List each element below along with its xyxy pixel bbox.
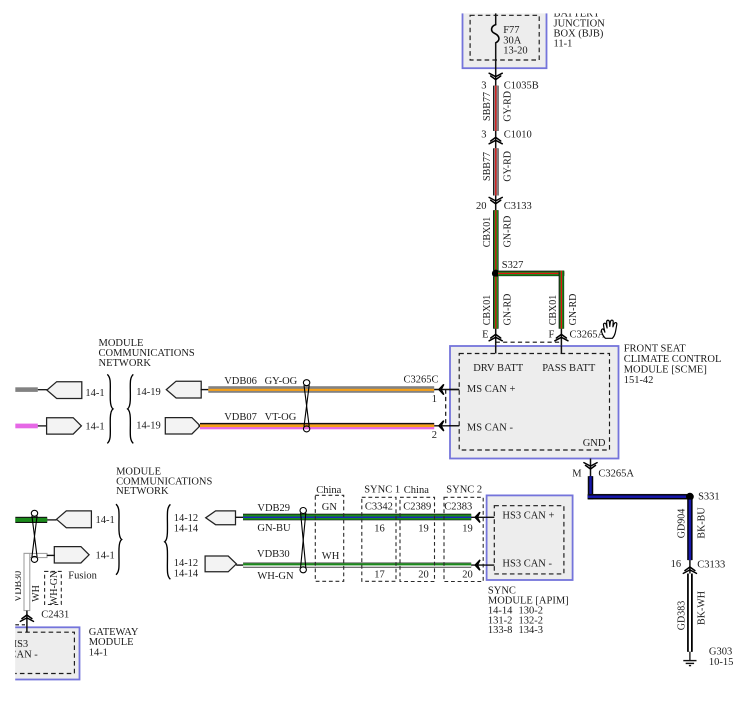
svg-text:GN-RD: GN-RD <box>502 216 513 248</box>
svg-text:CBX01: CBX01 <box>482 295 493 326</box>
svg-text:SYNC 1: SYNC 1 <box>364 484 400 495</box>
svg-text:3: 3 <box>481 129 486 140</box>
svg-text:C3133: C3133 <box>504 201 532 212</box>
connector C3265A pin M symbol <box>586 465 596 469</box>
wire HS3 CAN + inside module <box>486 516 495 518</box>
front seat climate control module SCME box <box>450 346 619 459</box>
wire pin 1 inside module <box>449 389 459 391</box>
svg-text:CLIMATE CONTROL: CLIMATE CONTROL <box>624 354 722 365</box>
svg-text:SYNC 2: SYNC 2 <box>446 484 482 495</box>
pin arrow into APIM HS3 CAN - <box>471 564 494 566</box>
svg-text:VDB07: VDB07 <box>224 412 257 423</box>
svg-text:30A: 30A <box>503 35 522 46</box>
svg-text:14-14: 14-14 <box>174 524 199 535</box>
off-page arrow 14-1 gateway HS3 CAN - <box>54 547 89 563</box>
lead to off-page arrow gateway row1 <box>47 519 56 521</box>
svg-text:M: M <box>572 468 582 479</box>
svg-text:F: F <box>548 330 554 341</box>
harness break brace left-facing top <box>128 374 134 443</box>
svg-text:BK-BU: BK-BU <box>697 507 708 539</box>
svg-text:134-3: 134-3 <box>519 625 544 636</box>
svg-text:17: 17 <box>374 570 385 581</box>
svg-text:BK-WH: BK-WH <box>697 591 708 625</box>
connector C1035B symbol <box>491 76 501 80</box>
harness break brace bottom-right <box>165 504 171 579</box>
lead from arrow to wire VDB29 <box>235 516 243 518</box>
svg-text:16: 16 <box>671 559 682 570</box>
svg-text:GY-RD: GY-RD <box>502 91 513 122</box>
svg-text:WH: WH <box>31 585 42 602</box>
svg-text:China: China <box>404 485 429 496</box>
wire from BJB top to fuse F77 <box>495 9 497 25</box>
hand cursor near C3265A <box>601 320 616 338</box>
svg-text:19: 19 <box>418 524 429 535</box>
svg-text:S327: S327 <box>502 260 524 271</box>
lead to ground symbol <box>689 652 691 661</box>
svg-text:C2431: C2431 <box>41 609 69 620</box>
splice S327 <box>492 270 500 278</box>
svg-text:VDB29: VDB29 <box>257 503 290 514</box>
svg-text:MS CAN +: MS CAN + <box>467 384 516 395</box>
svg-text:14-14: 14-14 <box>174 569 199 580</box>
dashed connector box SYNC 2 <box>444 497 483 581</box>
wire VDB29 GN-BU <box>243 514 471 521</box>
svg-text:13-20: 13-20 <box>503 46 528 57</box>
svg-text:14-12: 14-12 <box>174 513 199 524</box>
wire pin 2 inside module <box>449 425 459 427</box>
svg-text:WH: WH <box>322 551 340 562</box>
svg-text:GN-RD: GN-RD <box>568 294 579 326</box>
svg-text:C2389: C2389 <box>403 502 431 513</box>
svg-text:MS CAN -: MS CAN - <box>467 423 514 434</box>
svg-text:GY-OG: GY-OG <box>265 376 298 387</box>
connector C1010 symbol <box>491 137 501 141</box>
svg-text:14-12: 14-12 <box>174 558 199 569</box>
wire through connector C3133 <box>495 196 497 211</box>
wire into SCME pin F <box>560 329 562 354</box>
off-page arrow 14-1 MS CAN + left <box>47 382 82 399</box>
svg-text:C3265C: C3265C <box>404 374 439 385</box>
off-page arrow 14-1 gateway HS3 CAN + <box>57 511 92 528</box>
svg-text:NETWORK: NETWORK <box>99 358 152 369</box>
harness break brace right-facing top <box>107 374 113 443</box>
BJB inner dashed fuse box <box>470 15 539 60</box>
gateway inner dashed box <box>0 632 74 673</box>
svg-text:151-42: 151-42 <box>624 375 654 386</box>
off-page arrow MS CAN - right <box>165 418 200 434</box>
wire through connector C3133 bottom <box>689 560 691 573</box>
dashed connector line at C2431 <box>15 624 25 626</box>
wire WH vertical to C2431 <box>24 553 30 610</box>
wire into gateway inside module <box>26 626 28 632</box>
svg-text:Fusion: Fusion <box>68 571 97 582</box>
svg-text:20: 20 <box>462 570 473 581</box>
svg-text:14-1: 14-1 <box>96 551 115 562</box>
off-page wire stub GY <box>15 387 38 392</box>
svg-text:C3265A: C3265A <box>598 468 634 479</box>
harness break brace bottom-left <box>116 504 122 575</box>
svg-text:NETWORK: NETWORK <box>116 486 169 497</box>
twisted pair symbol HS3 CAN <box>300 508 306 573</box>
svg-text:GN-RD: GN-RD <box>502 294 513 326</box>
svg-text:CBX01: CBX01 <box>548 295 559 326</box>
svg-text:WH-GN: WH-GN <box>49 571 60 605</box>
svg-text:C3342: C3342 <box>365 502 393 513</box>
svg-text:VT-OG: VT-OG <box>265 412 297 423</box>
wire pin F inside module <box>560 345 562 353</box>
svg-text:WH-GN: WH-GN <box>257 571 294 582</box>
twisted pair symbol MS CAN <box>303 380 309 432</box>
wire from SCME GND to connector C3265A pin M <box>590 459 592 477</box>
svg-text:14-1: 14-1 <box>85 388 104 399</box>
wire VDB07 VT-OG <box>200 423 434 429</box>
svg-text:14-1: 14-1 <box>89 647 108 658</box>
wire HS3 CAN - inside module <box>486 564 495 566</box>
svg-text:E: E <box>482 330 488 341</box>
wire into SCME pin E <box>495 329 497 354</box>
wire GN stub to off-page arrow <box>15 517 47 523</box>
pin arrow into APIM HS3 CAN + <box>471 516 494 518</box>
svg-text:China: China <box>316 485 341 496</box>
svg-text:C3265A: C3265A <box>570 330 606 341</box>
svg-text:GN: GN <box>322 502 338 513</box>
wire GD904 BK-BU horizontal to S331 <box>588 494 693 500</box>
svg-text:DRV BATT: DRV BATT <box>473 363 524 374</box>
wire GD904 BK-BU down from S331 <box>687 500 693 560</box>
svg-text:C1035B: C1035B <box>504 80 539 91</box>
svg-text:C2383: C2383 <box>444 502 472 513</box>
connector symbol at pin F <box>556 334 566 338</box>
dashed connector box SYNC 1 <box>362 497 396 581</box>
svg-text:14-1: 14-1 <box>96 515 115 526</box>
svg-text:GND: GND <box>583 438 606 449</box>
svg-text:G303: G303 <box>709 646 732 657</box>
wire CBX01 GN-RD branch horizontal from S327 <box>498 271 564 277</box>
pin arrow into C3265C pin 2 <box>434 425 459 427</box>
svg-text:14-19: 14-19 <box>136 421 161 432</box>
svg-text:MODULE [SCME]: MODULE [SCME] <box>624 364 707 375</box>
APIM inner dashed box <box>494 506 564 574</box>
dashed connector line between pins E and F <box>496 341 562 343</box>
wire into gateway module <box>26 611 28 632</box>
wire through connector C1010 <box>495 131 497 148</box>
svg-text:11-1: 11-1 <box>554 38 573 49</box>
svg-text:GD904: GD904 <box>676 509 687 538</box>
connector symbol at pin E <box>491 334 501 338</box>
off-page wire stub VT <box>15 424 38 429</box>
pin arrow into C3265C pin 1 <box>434 389 459 391</box>
wire VDB06 GY-OG <box>208 386 434 393</box>
svg-text:14-19: 14-19 <box>136 387 161 398</box>
wire SBB77 GY-RD segment 1 <box>493 86 499 131</box>
battery junction box (BJB) outline <box>463 2 547 68</box>
off-page arrow VDB29 <box>206 511 236 525</box>
svg-text:CBX01: CBX01 <box>482 217 493 248</box>
dashed variant box China 1 <box>315 495 343 581</box>
off-page arrow MS CAN + right <box>166 381 201 398</box>
svg-text:HS3 CAN +: HS3 CAN + <box>502 510 554 521</box>
svg-text:10-15: 10-15 <box>709 657 734 668</box>
wire CBX01 GN-RD upper segment <box>493 210 499 270</box>
lead to off-page arrow 14-1 row2 <box>38 425 47 427</box>
wire GD904 BK-BU vertical from pin M <box>588 476 594 499</box>
wire GD383 BK-WH to ground <box>687 574 693 652</box>
wire VDB30 WH-GN <box>243 563 471 568</box>
svg-text:GN-BU: GN-BU <box>257 523 291 534</box>
fuse F77 30A symbol <box>492 25 499 43</box>
SYNC module APIM box <box>487 495 573 580</box>
svg-text:1: 1 <box>432 394 437 405</box>
svg-text:GY-RD: GY-RD <box>502 151 513 182</box>
wire CBX01 GN-RD right branch vertical to pin F <box>559 271 565 329</box>
svg-text:20: 20 <box>476 201 487 212</box>
wire CBX01 GN-RD left branch to pin E <box>493 277 499 329</box>
svg-text:133-8: 133-8 <box>488 625 513 636</box>
white clip overlay top <box>0 0 747 13</box>
svg-text:16: 16 <box>374 524 385 535</box>
dashed connector line C3265C pins 1-2 <box>445 390 447 426</box>
lead from arrow to wire VDB06 <box>201 389 210 391</box>
svg-text:VDB30: VDB30 <box>257 549 290 560</box>
wire SBB77 GY-RD segment 2 <box>493 148 499 195</box>
lead from arrow to wire VDB07 <box>198 425 201 427</box>
lead to off-page arrow 14-1 row1 <box>38 389 47 391</box>
off-page arrow 14-1 MS CAN - left <box>47 418 82 434</box>
svg-text:SBB77: SBB77 <box>482 92 493 121</box>
svg-text:HS3 CAN -: HS3 CAN - <box>502 559 552 570</box>
wire pin E inside module <box>495 345 497 353</box>
ground G303 symbol <box>683 660 696 662</box>
wire from fuse to connector C1035B <box>495 43 497 86</box>
dashed variant box China 2 <box>400 497 435 581</box>
dashed variant box Fusion <box>45 571 62 604</box>
svg-text:PASS BATT: PASS BATT <box>542 363 596 374</box>
white clip overlay left <box>0 0 15 696</box>
svg-text:3: 3 <box>481 80 486 91</box>
lead from WH wire to off-page arrow row2 <box>47 554 55 556</box>
svg-text:2: 2 <box>432 430 437 441</box>
svg-text:C3133: C3133 <box>697 559 725 570</box>
connector C2431 symbol <box>22 615 32 619</box>
splice S331 <box>686 493 694 501</box>
svg-text:GD383: GD383 <box>676 601 687 630</box>
lead from arrow to wire VDB30 <box>236 564 243 566</box>
connector C3133 symbol <box>491 200 501 204</box>
svg-text:S331: S331 <box>698 491 720 502</box>
svg-text:20: 20 <box>418 570 429 581</box>
off-page arrow VDB30 <box>205 556 236 572</box>
SCME inner dashed box <box>459 354 609 451</box>
svg-text:19: 19 <box>462 524 473 535</box>
svg-text:VDB06: VDB06 <box>224 376 257 387</box>
svg-text:SBB77: SBB77 <box>482 152 493 181</box>
svg-text:14-1: 14-1 <box>85 422 104 433</box>
svg-text:C1010: C1010 <box>504 129 532 140</box>
wire WH horizontal from arrow <box>24 553 47 557</box>
twisted pair symbol gateway <box>31 510 37 562</box>
gateway module box <box>0 627 80 679</box>
connector C3133 bottom symbol <box>685 567 695 571</box>
